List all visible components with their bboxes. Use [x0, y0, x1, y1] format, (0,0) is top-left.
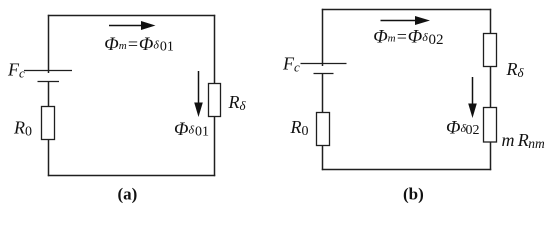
wire (b) bottom — [322, 169, 491, 171]
wire (b) left upper — [322, 9, 324, 66]
flux arrow (a) down — [194, 71, 203, 117]
wire (a) bottom — [48, 175, 215, 177]
wire (b) right upper — [490, 9, 492, 34]
svg-text:(b): (b) — [403, 185, 424, 204]
wire (b) right lower — [490, 142, 492, 170]
flux arrow (a) top — [109, 21, 156, 30]
svg-text:Φm=Φδ01: Φm=Φδ01 — [104, 34, 174, 55]
resistor mRnm (b) box — [484, 108, 497, 143]
wire (a) left mid — [48, 82, 50, 107]
svg-text:Rδ: Rδ — [228, 92, 247, 113]
svg-text:R0: R0 — [13, 117, 32, 139]
wire (a) right upper — [214, 15, 216, 84]
battery Fc (b) long plate — [301, 63, 347, 65]
svg-text:Φm=Φδ02: Φm=Φδ02 — [373, 27, 443, 49]
svg-text:Rδ: Rδ — [506, 59, 525, 80]
svg-text:(a): (a) — [118, 185, 138, 204]
wire (b) left mid — [322, 74, 324, 113]
wire (a) top — [48, 15, 215, 17]
resistor R0 (a) box — [42, 107, 55, 140]
svg-text:Φδ02: Φδ02 — [446, 118, 480, 139]
svg-text:Φδ01: Φδ01 — [174, 119, 209, 140]
wire (a) right lower — [214, 117, 216, 177]
battery Fc (a) long plate — [24, 70, 72, 72]
battery Fc (b) short plate — [314, 73, 334, 75]
svg-text:Fc: Fc — [282, 54, 300, 75]
flux arrow (b) down — [468, 77, 477, 118]
battery Fc (a) short plate — [38, 81, 60, 83]
wire (b) left lower — [322, 146, 324, 171]
svg-text:R0: R0 — [290, 117, 309, 139]
wire (a) left lower — [48, 140, 50, 177]
resistor Rdelta (a) box — [209, 84, 221, 117]
wire (b) right mid — [490, 67, 492, 108]
flux arrow (b) top — [381, 16, 431, 25]
wire (a) left upper — [48, 15, 50, 73]
resistor R0 (b) box — [317, 113, 330, 146]
svg-text:mRnm: mRnm — [502, 130, 545, 151]
svg-text:Fc: Fc — [7, 60, 25, 81]
wire (b) top — [322, 9, 491, 11]
resistor Rdelta (b) box — [484, 34, 497, 67]
